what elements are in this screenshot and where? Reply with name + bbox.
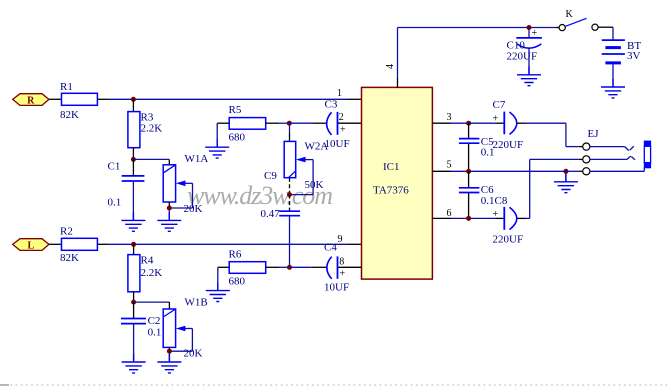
wire port L to R2 xyxy=(49,243,62,245)
svg-text:TA7376: TA7376 xyxy=(373,185,409,197)
wire node D to W1B xyxy=(134,302,170,309)
svg-text:3: 3 xyxy=(447,112,452,123)
resistor R4 xyxy=(128,254,162,292)
potentiometer W1A xyxy=(163,153,208,202)
svg-text:9: 9 xyxy=(338,234,343,245)
svg-text:C3: C3 xyxy=(325,99,338,111)
wire R6 right to node F xyxy=(266,266,290,268)
svg-text:0.1: 0.1 xyxy=(108,197,122,209)
node B xyxy=(131,157,136,162)
ground (R6) xyxy=(206,283,230,302)
pin 5 stub xyxy=(432,160,566,172)
ground (W1A) xyxy=(157,212,181,231)
node D xyxy=(131,300,136,305)
node E xyxy=(287,121,292,126)
svg-text:W1A: W1A xyxy=(185,153,209,165)
wire R1 to node A xyxy=(97,98,347,100)
svg-text:EJ: EJ xyxy=(588,128,600,140)
svg-text:IC1: IC1 xyxy=(383,161,400,173)
svg-text:C9: C9 xyxy=(264,170,277,182)
svg-text:K: K xyxy=(566,9,574,20)
capacitor C3 xyxy=(290,99,362,150)
wire node E to W2A xyxy=(289,123,291,141)
wire W1B wiper down xyxy=(191,329,193,352)
wire port R to R1 xyxy=(49,98,62,100)
node F xyxy=(287,265,292,270)
svg-text:R: R xyxy=(27,96,35,107)
wire W1A wiper down xyxy=(192,183,194,208)
svg-text:L: L xyxy=(27,241,34,252)
ground (W1B) xyxy=(157,354,181,373)
svg-text:82K: 82K xyxy=(60,252,79,264)
wire C2 to ground xyxy=(133,324,135,362)
svg-text:+: + xyxy=(340,269,346,280)
svg-text:10UF: 10UF xyxy=(325,138,350,150)
pin 3 stub xyxy=(432,112,468,123)
node A xyxy=(131,97,136,102)
node H (pin3) xyxy=(466,121,471,126)
resistor R1 xyxy=(60,81,97,121)
svg-text:C10: C10 xyxy=(507,39,526,51)
node C xyxy=(131,242,136,247)
wire node C to R4 xyxy=(133,244,135,254)
capacitor C2 xyxy=(121,315,161,339)
svg-text:3V: 3V xyxy=(627,50,641,62)
node G (supply) xyxy=(527,25,532,30)
svg-text:0.1: 0.1 xyxy=(148,327,162,339)
capacitor C1 xyxy=(108,161,145,209)
svg-text:220UF: 220UF xyxy=(493,139,524,151)
capacitor C5 xyxy=(459,123,495,171)
svg-text:82K: 82K xyxy=(60,109,79,121)
node W2A bottom xyxy=(287,192,292,197)
jack tip contact wire xyxy=(590,146,634,150)
jack sleeve wire xyxy=(590,168,644,172)
wire node K to ground xyxy=(565,171,567,182)
capacitor C10 xyxy=(507,28,542,63)
wire W2A wiper down xyxy=(312,160,314,195)
potentiometer W1B xyxy=(163,297,208,348)
pin 6 stub xyxy=(432,208,495,219)
svg-text:+: + xyxy=(493,209,499,220)
wire R5 right to node E xyxy=(266,122,289,124)
wire R6 left to ground xyxy=(218,267,229,290)
svg-text:R3: R3 xyxy=(141,111,154,123)
ground (C2) xyxy=(122,354,146,373)
ground (R5) xyxy=(205,139,229,158)
svg-text:220UF: 220UF xyxy=(507,51,538,63)
svg-text:C1: C1 xyxy=(108,161,121,173)
svg-text:4: 4 xyxy=(385,64,396,69)
switch K xyxy=(559,9,598,31)
svg-text:C4: C4 xyxy=(324,242,337,254)
svg-text:0.1: 0.1 xyxy=(481,147,495,159)
svg-text:C2: C2 xyxy=(148,315,161,327)
svg-text:W1B: W1B xyxy=(185,297,208,309)
battery BT xyxy=(602,40,642,63)
svg-text:2.2K: 2.2K xyxy=(141,267,163,279)
svg-text:20K: 20K xyxy=(184,348,203,360)
wire C8 to jack ring xyxy=(525,159,583,218)
pin 4 wire up xyxy=(398,28,560,88)
svg-text:+: + xyxy=(340,125,346,136)
svg-text:50K: 50K xyxy=(305,179,324,191)
IC U1 TA7376 xyxy=(362,87,433,279)
node I (pin5) xyxy=(466,169,471,174)
page border dotted line xyxy=(0,384,669,386)
capacitor C6 xyxy=(459,171,508,218)
svg-text:R5: R5 xyxy=(229,104,242,116)
svg-text:2: 2 xyxy=(339,112,344,123)
svg-text:1: 1 xyxy=(337,88,342,99)
wire R3 to node B xyxy=(132,148,134,160)
jack EJ xyxy=(583,128,600,175)
ground (EJ) xyxy=(554,174,578,193)
ground (C10) xyxy=(517,67,541,86)
wire node B to W1A xyxy=(133,159,169,164)
pin 1 stub xyxy=(347,98,362,100)
capacitor C4 xyxy=(290,242,362,294)
svg-text:220UF: 220UF xyxy=(493,234,524,246)
wire R2 to node C xyxy=(97,243,347,245)
pin 9 stub xyxy=(347,243,362,245)
port L xyxy=(13,239,49,252)
svg-text:+: + xyxy=(493,114,499,125)
wire W2A bottom row xyxy=(290,178,314,195)
capacitor C9 xyxy=(261,170,301,220)
svg-text:C7: C7 xyxy=(493,99,506,111)
svg-text:8: 8 xyxy=(339,256,344,267)
svg-text:10UF: 10UF xyxy=(324,282,349,294)
node J (pin6) xyxy=(466,216,471,221)
svg-text:6: 6 xyxy=(447,208,452,219)
wire W1B bottom row xyxy=(169,347,192,362)
wire R4 to node D xyxy=(133,292,135,302)
wire node D to C2 xyxy=(133,302,135,318)
ground (BT) xyxy=(601,79,625,98)
svg-text:680: 680 xyxy=(229,276,246,288)
svg-text:R4: R4 xyxy=(141,254,154,266)
resistor R5 xyxy=(229,104,266,143)
wire C9 down to node F xyxy=(289,216,291,267)
jack plug body xyxy=(644,141,650,168)
svg-text:R1: R1 xyxy=(60,81,73,93)
wire C1 to ground xyxy=(132,182,134,221)
node W1A bottom xyxy=(167,206,172,211)
ground (C1) xyxy=(121,212,145,231)
port R xyxy=(13,94,49,107)
wire node B to C1 xyxy=(132,159,134,175)
resistor R2 xyxy=(60,226,97,265)
resistor R3 xyxy=(128,111,162,147)
svg-text:R6: R6 xyxy=(229,248,242,260)
capacitor C7 xyxy=(469,99,525,151)
wire R5 left to ground xyxy=(217,123,229,147)
resistor R6 xyxy=(229,248,266,287)
wire switch to battery xyxy=(598,27,613,39)
wire C7 to jack tip xyxy=(525,123,583,146)
node W1B bottom xyxy=(167,349,172,354)
node K (EJ ground) xyxy=(563,169,568,174)
svg-text:5: 5 xyxy=(447,160,452,171)
svg-text:0.1C8: 0.1C8 xyxy=(481,195,508,207)
capacitor C8 xyxy=(493,207,526,246)
potentiometer W2A xyxy=(284,141,328,192)
wire battery to ground xyxy=(612,64,614,87)
wire node K right xyxy=(566,170,583,172)
wire node A to R3 xyxy=(132,99,134,111)
svg-text:2.2K: 2.2K xyxy=(141,123,163,135)
jack ring contact wire xyxy=(590,156,635,160)
svg-text:R2: R2 xyxy=(60,226,73,238)
svg-text:0.47: 0.47 xyxy=(261,208,281,220)
wire C10 to ground xyxy=(528,49,530,75)
wire W1A bottom row xyxy=(169,202,192,220)
svg-text:+: + xyxy=(532,28,538,39)
svg-text:680: 680 xyxy=(229,131,246,143)
svg-text:20K: 20K xyxy=(184,203,203,215)
